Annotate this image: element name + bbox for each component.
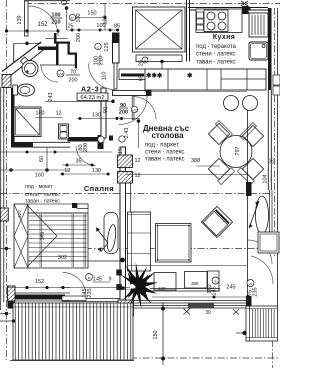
svg-text:✱✱✱: ✱✱✱ xyxy=(146,72,163,80)
svg-text:✱: ✱ xyxy=(187,72,193,80)
svg-text:85: 85 xyxy=(114,24,120,30)
svg-text:302: 302 xyxy=(58,255,67,261)
svg-text:200: 200 xyxy=(68,78,77,84)
svg-text:12: 12 xyxy=(134,158,140,164)
svg-text:под - теракота: под - теракота xyxy=(196,44,237,50)
svg-text:150: 150 xyxy=(153,330,159,339)
svg-text:139: 139 xyxy=(17,15,23,24)
svg-text:160: 160 xyxy=(35,111,44,117)
svg-text:152: 152 xyxy=(35,279,44,285)
svg-text:345: 345 xyxy=(40,232,46,241)
svg-text:130: 130 xyxy=(92,113,101,119)
svg-text:388: 388 xyxy=(191,158,200,164)
svg-text:столова: столова xyxy=(151,131,184,140)
svg-text:V4: V4 xyxy=(58,72,64,77)
svg-text:90: 90 xyxy=(103,107,109,113)
svg-text:A2-3: A2-3 xyxy=(81,85,99,94)
svg-text:26: 26 xyxy=(270,158,276,164)
svg-text:25: 25 xyxy=(67,24,73,30)
svg-text:797: 797 xyxy=(235,146,241,155)
svg-text:130: 130 xyxy=(92,168,101,174)
svg-text:100: 100 xyxy=(96,23,105,29)
svg-text:12: 12 xyxy=(134,173,140,179)
svg-text:104: 104 xyxy=(263,174,269,183)
svg-text:E: E xyxy=(71,16,74,21)
svg-text:145: 145 xyxy=(212,286,218,295)
svg-text:12: 12 xyxy=(64,168,70,174)
svg-text:188: 188 xyxy=(158,286,166,291)
svg-text:243: 243 xyxy=(48,92,54,101)
svg-text:таван - латекс: таван - латекс xyxy=(145,157,185,163)
svg-text:422: 422 xyxy=(17,210,22,218)
svg-text:145: 145 xyxy=(93,277,102,283)
svg-text:110: 110 xyxy=(102,72,108,81)
svg-text:152: 152 xyxy=(37,22,48,28)
svg-text:125: 125 xyxy=(104,42,110,51)
svg-text:200: 200 xyxy=(76,33,82,42)
svg-text:100: 100 xyxy=(76,13,82,22)
svg-text:60: 60 xyxy=(39,156,45,162)
svg-text:стени - латекс: стени - латекс xyxy=(145,150,184,156)
svg-text:Спалня: Спалня xyxy=(84,184,114,193)
svg-text:таван - латекс: таван - латекс xyxy=(196,60,236,66)
svg-text:65: 65 xyxy=(139,75,145,81)
svg-text:200: 200 xyxy=(119,110,128,116)
svg-text:2.43: 2.43 xyxy=(124,128,130,139)
svg-text:210: 210 xyxy=(99,56,105,65)
svg-text:235: 235 xyxy=(253,287,259,296)
svg-text:200: 200 xyxy=(83,143,89,152)
svg-text:под - мокет: под - мокет xyxy=(25,184,53,190)
svg-text:35: 35 xyxy=(75,159,81,165)
svg-text:150: 150 xyxy=(87,11,96,17)
svg-text:V2: V2 xyxy=(132,108,138,113)
svg-text:25: 25 xyxy=(139,60,145,66)
svg-text:64.23 m2: 64.23 m2 xyxy=(80,95,104,101)
svg-text:245: 245 xyxy=(226,285,235,291)
svg-text:стени - латекс: стени - латекс xyxy=(196,52,235,58)
svg-text:15: 15 xyxy=(118,148,124,154)
svg-text:9: 9 xyxy=(108,277,111,283)
svg-text:таван - латекс: таван - латекс xyxy=(25,199,60,205)
svg-text:c: c xyxy=(97,45,99,50)
svg-text:стени - латекс: стени - латекс xyxy=(25,192,60,198)
svg-text:160: 160 xyxy=(35,173,44,179)
svg-text:100: 100 xyxy=(51,13,60,19)
svg-text:70: 70 xyxy=(70,70,76,76)
svg-text:12: 12 xyxy=(55,111,61,117)
svg-text:30: 30 xyxy=(205,310,211,316)
svg-text:210: 210 xyxy=(51,20,60,26)
svg-text:под - паркет: под - паркет xyxy=(145,142,179,148)
svg-text:235: 235 xyxy=(87,288,93,297)
svg-text:Кухня: Кухня xyxy=(213,34,235,41)
svg-text:388: 388 xyxy=(191,281,199,286)
